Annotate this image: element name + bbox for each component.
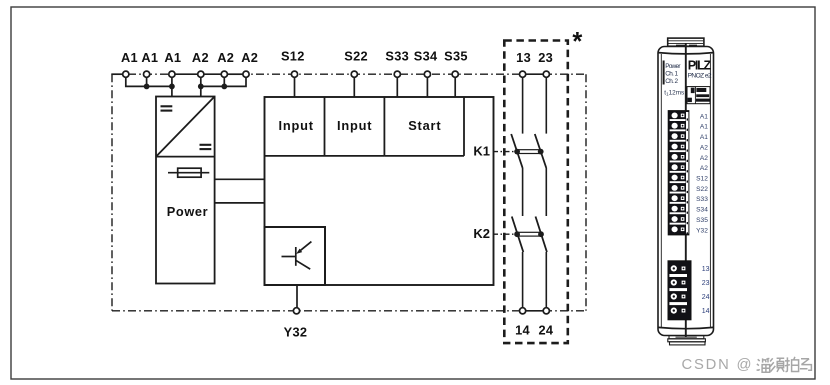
device body inner edge right [709,54,711,328]
device boundary dash-dot left edge [111,74,113,311]
svg-text:A1: A1 [164,50,181,65]
wire contact 24 lower [545,252,547,308]
contact K2 arm right [536,217,547,253]
contact K2 linkage dot right [538,231,544,237]
svg-text:K1: K1 [473,143,490,158]
watermark CSDN [682,357,812,373]
svg-text:PILZ: PILZ [688,58,712,72]
svg-text:Ch. 2: Ch. 2 [665,78,678,85]
wire contact 23 upper [545,77,547,133]
terminal S33 [385,49,409,78]
wire K1 dash-dot link [493,151,517,153]
terminal A2 (2) [217,50,234,77]
svg-text:Y32: Y32 [284,325,308,340]
contact K1 arm left [511,134,522,168]
svg-text:*: * [572,28,582,56]
svg-text:A2: A2 [700,165,708,172]
contact K2 arm left [512,217,524,253]
wire terminal link A1-A2 [175,73,198,75]
wire boundary lead-in left [111,73,122,75]
PNOZ device drawing [658,38,714,345]
watermark glyph ma [800,359,812,370]
terminal 23 [538,50,553,77]
terminal S35 [444,49,468,78]
terminal Y32 [284,308,308,340]
svg-text:S33: S33 [696,196,708,203]
svg-text:A1: A1 [700,124,708,131]
wire contact 13 upper [522,77,524,133]
svg-text:Y32: Y32 [696,227,708,234]
junction A1 bus dot 1 [144,84,150,90]
svg-text:A2: A2 [217,50,234,65]
svg-text:A1: A1 [700,134,708,141]
DC symbol upper [161,106,173,110]
wire S35 stub [454,77,456,97]
svg-text:S34: S34 [414,49,438,64]
terminal screw A2 (row 6) [670,164,688,172]
terminal screw S34 (row 10) [670,206,688,214]
start block [384,97,464,156]
terminal screw S35 (row 11) [670,216,688,224]
fuse F1 [168,168,209,177]
approval mark box [687,87,710,104]
wire contact 14 lower [522,252,524,308]
wire terminal link A2-A2 b [227,73,243,75]
device LED window [663,61,665,85]
watermark glyph xu [770,358,775,371]
wire A1 bus [126,77,172,96]
device body [658,47,714,336]
device body inner edge left [660,54,662,328]
terminal A2 (3) [241,50,258,77]
junction A1 bus dot 2 [169,84,175,90]
terminal screw 14 (lower row 4) [671,308,686,314]
svg-text:A1: A1 [700,113,708,120]
contact K1 linkage bar [517,150,541,154]
terminal screw S33 (row 9) [670,195,688,203]
device center ridge [685,44,687,338]
terminal screw 24 (lower row 3) [669,293,687,305]
svg-text:CSDN @: CSDN @ [682,357,754,373]
wire A2 bus [201,77,246,96]
terminal screw A1 (row 3) [670,133,688,141]
wire terminal link 14-24 [526,310,543,312]
transistor output Q1 box [265,227,326,285]
DC symbol lower [200,145,212,149]
watermark glyph liu [757,359,760,370]
contact group box (dashed, asterisk) [504,41,568,344]
wire contact mid left [522,168,524,216]
svg-text:A1: A1 [121,50,138,65]
svg-text:S12: S12 [281,49,305,64]
device foot [668,336,706,345]
svg-text:PNOZ e2: PNOZ e2 [688,73,712,80]
device boundary dash-dot right edge [585,74,587,311]
terminal S12 [281,49,305,78]
svg-text:S35: S35 [696,217,708,224]
terminal screw 13 (lower row 1) [669,265,687,277]
svg-text:13: 13 [516,50,531,65]
terminal screw S12 (row 7) [670,175,688,183]
junction A2 bus dot 1 [198,84,204,90]
transistor Q1 arrow [296,249,302,254]
wire S12 stub [294,77,296,97]
contact K1 arm right [535,134,547,168]
wire S34 stub [426,77,428,97]
device bottom band [658,327,713,328]
wire terminal link 13-23 [526,73,543,75]
terminal A1 (1) [121,50,138,77]
terminal S34 [414,49,438,78]
lower terminal strip [668,261,691,320]
terminal screw S22 (row 8) [670,185,688,194]
terminal S22 [344,49,368,78]
transistor Q1 symbol [282,242,312,270]
svg-text:A1: A1 [141,50,158,65]
terminal screw 23 (lower row 2) [669,279,687,291]
wire contact mid right [545,168,547,216]
svg-text:S35: S35 [444,49,468,64]
svg-text:24: 24 [538,323,553,338]
terminal A1 (2) [141,50,158,77]
wire Y32 [296,285,298,308]
logic main block [265,97,494,285]
svg-text:A2: A2 [700,155,708,162]
svg-text:S22: S22 [696,186,708,193]
terminal A2 (1) [192,50,209,77]
svg-text:14: 14 [702,308,710,315]
wire terminal link A2-A2 a [204,73,221,75]
terminal screw A1 (row 1) [670,113,688,122]
svg-text:A2: A2 [241,50,258,65]
svg-text:K2: K2 [473,226,490,241]
input block 2 [325,97,385,156]
contact K1 linkage dot left [514,149,520,155]
terminal screw A1 (row 2) [670,123,688,131]
power supply block U1 [156,97,215,284]
device top cap [668,38,704,46]
svg-text:t112ms: t112ms [664,90,684,97]
contact K2 linkage bar [517,232,541,236]
terminal 13 [516,50,531,77]
device top band [658,53,713,54]
svg-text:14: 14 [515,323,530,338]
terminal 24 [538,308,553,338]
input block 1 [265,97,325,156]
wire S22 stub [353,77,355,97]
svg-text:Power: Power [167,204,208,219]
device boundary dash-dot bottom edge [112,310,586,312]
terminal screw A2 (row 5) [670,154,688,162]
svg-text:S22: S22 [344,49,368,64]
wire S33 stub [396,77,398,97]
svg-text:A2: A2 [700,145,708,152]
terminal 14 [515,308,530,338]
svg-text:Ch. 1: Ch. 1 [665,71,678,78]
svg-text:Power: Power [665,63,681,70]
svg-text:23: 23 [702,280,710,287]
terminal A1 (3) [164,50,181,77]
wire power-to-logic upper [215,178,265,180]
device boundary dash-dot top edge [112,73,586,75]
contact K1 linkage dot right [538,149,544,155]
terminal screw Y32 (row 12) [672,226,689,234]
svg-text:S33: S33 [385,49,409,64]
watermark glyph pai [785,357,790,371]
junction A2 bus dot 2 [221,84,227,90]
svg-text:Start: Start [408,118,441,133]
svg-text:13: 13 [702,266,710,273]
svg-text:24: 24 [702,294,710,301]
svg-text:Input: Input [279,118,314,133]
svg-text:S12: S12 [696,176,708,183]
svg-text:S34: S34 [696,207,708,214]
terminal screw A2 (row 4) [670,144,688,152]
svg-text:A2: A2 [192,50,209,65]
wire K2 dash-dot link [493,233,517,235]
upper terminal strip [668,111,689,235]
svg-text:23: 23 [538,50,553,65]
wire power-to-logic lower [215,202,265,204]
svg-text:Input: Input [337,118,372,133]
contact K2 linkage dot left [514,231,520,237]
